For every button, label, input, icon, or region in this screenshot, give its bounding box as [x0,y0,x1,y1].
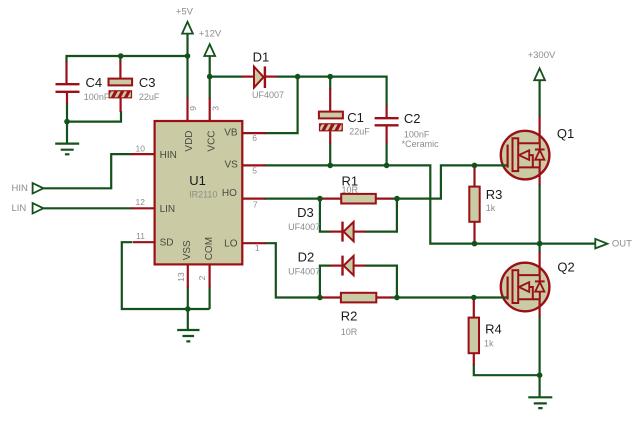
svg-text:UF4007: UF4007 [288,222,320,232]
svg-text:10: 10 [136,143,146,153]
svg-text:VSS: VSS [182,240,193,260]
svg-text:D3: D3 [297,205,314,220]
svg-text:10R: 10R [341,327,358,337]
svg-text:HO: HO [222,188,237,199]
svg-text:C2: C2 [404,111,421,126]
svg-text:Q1: Q1 [557,126,574,141]
svg-text:R4: R4 [485,322,502,337]
svg-text:5: 5 [252,165,257,175]
svg-text:C3: C3 [139,75,156,90]
svg-text:3: 3 [210,106,220,111]
svg-text:*Ceramic: *Ceramic [402,139,440,149]
svg-text:UF4007: UF4007 [288,267,320,277]
svg-text:1: 1 [255,243,260,253]
svg-text:+300V: +300V [528,50,556,61]
svg-text:1k: 1k [484,339,494,349]
svg-text:10R: 10R [342,185,359,195]
svg-text:COM: COM [204,237,215,260]
svg-text:6: 6 [252,133,257,143]
svg-text:D2: D2 [298,249,315,264]
svg-text:11: 11 [136,231,145,241]
svg-text:R2: R2 [341,308,358,323]
svg-text:HIN: HIN [160,150,177,161]
svg-text:7: 7 [253,199,258,209]
svg-text:VDD: VDD [184,130,195,151]
svg-text:C4: C4 [86,75,103,90]
svg-text:9: 9 [188,106,198,111]
svg-text:HIN: HIN [12,183,29,194]
svg-text:IR2110: IR2110 [189,190,217,200]
svg-text:12: 12 [136,197,146,207]
svg-text:+12V: +12V [199,29,222,40]
svg-text:13: 13 [176,272,186,282]
svg-text:VS: VS [224,160,238,171]
svg-text:100nF: 100nF [84,92,110,102]
svg-text:+5V: +5V [176,7,194,18]
svg-text:SD: SD [160,238,174,249]
svg-text:VB: VB [224,128,238,139]
svg-text:D1: D1 [253,49,270,64]
svg-text:22uF: 22uF [349,127,370,137]
svg-text:U1: U1 [189,173,206,188]
svg-text:C1: C1 [347,110,364,125]
svg-text:UF4007: UF4007 [252,90,284,100]
svg-text:2: 2 [197,275,207,280]
svg-text:1k: 1k [486,203,496,213]
svg-text:LIN: LIN [160,204,176,215]
svg-text:Q2: Q2 [557,260,574,275]
svg-text:22uF: 22uF [139,92,160,102]
svg-text:R3: R3 [486,187,503,202]
svg-text:OUT: OUT [612,239,632,250]
svg-text:VCC: VCC [206,130,217,151]
svg-text:LO: LO [224,239,238,250]
svg-text:LIN: LIN [12,203,27,214]
